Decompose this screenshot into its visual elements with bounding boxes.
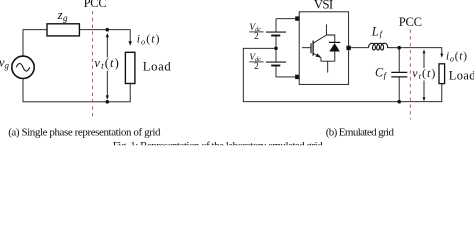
- svg-text:PCC: PCC: [84, 0, 107, 10]
- vt(t) measurement arrow (b): [423, 49, 426, 101]
- PCC dashed line (a): [92, 11, 94, 120]
- PCC dashed line (b): [409, 30, 411, 120]
- load resistor (b): [439, 64, 445, 84]
- svg-text:vt(t): vt(t): [94, 56, 120, 71]
- svg-text:PCC: PCC: [399, 15, 422, 29]
- svg-text:zg: zg: [57, 7, 68, 23]
- wire VSI out to inductor: [349, 47, 369, 49]
- node mid DC link: [274, 47, 278, 51]
- node B bottom: [106, 100, 110, 104]
- wire Cf node to load corner (b): [399, 48, 442, 55]
- svg-text:Load: Load: [449, 69, 474, 83]
- svg-text:2: 2: [254, 62, 259, 72]
- diode D1: [329, 42, 340, 51]
- battery cell 2 (Vdc/2): [266, 62, 295, 77]
- svg-text:Lf: Lf: [371, 24, 384, 38]
- capacitor Cf: [391, 48, 407, 102]
- VSI box: [299, 12, 348, 85]
- wire mid rail: battery midpoint to left rail, bottom rail to load: [243, 48, 441, 101]
- wire resistor to load corner: [79, 30, 130, 42]
- transistor Q1 IGBT: [302, 24, 335, 72]
- svg-text:Cf: Cf: [375, 65, 388, 80]
- svg-text:io(t): io(t): [137, 32, 161, 46]
- battery cell 1 (Vdc/2): [266, 19, 286, 62]
- terminal dot VSI left bottom: [295, 75, 299, 79]
- vt(t) measurement arrow (a): [106, 33, 109, 100]
- node Cf bottom: [397, 100, 401, 104]
- terminal dot VSI right (phase out): [346, 46, 350, 50]
- svg-text:2: 2: [254, 32, 259, 42]
- resistor zg: [47, 24, 79, 36]
- svg-text:vt(t): vt(t): [412, 66, 436, 81]
- current arrow io(t) (b): [440, 54, 443, 58]
- node Cf top: [397, 46, 401, 50]
- voltage source vg circle: [12, 56, 34, 78]
- node A top: [106, 28, 110, 32]
- load resistor (a): [125, 52, 134, 83]
- svg-text:(a) Single phase representatio: (a) Single phase representation of grid: [8, 126, 161, 138]
- svg-text:(b) Emulated grid: (b) Emulated grid: [326, 126, 395, 138]
- svg-text:io(t): io(t): [446, 50, 468, 63]
- svg-text:Load: Load: [143, 59, 172, 73]
- label Vdc/2 lower: [249, 53, 263, 72]
- wire load bottom, bottom rail, back to source: [23, 79, 130, 102]
- terminal dot VSI left top: [295, 16, 299, 20]
- wire inductor to Cf node: [387, 47, 399, 49]
- inductor Lf: [368, 43, 387, 50]
- wire battery top to VSI: [276, 18, 295, 20]
- label Vdc/2 upper: [249, 23, 263, 42]
- svg-text:vg: vg: [0, 55, 10, 70]
- svg-text:VSI: VSI: [314, 0, 333, 12]
- current arrow io(t) (a): [129, 41, 132, 46]
- wire source top to resistor: [23, 30, 47, 56]
